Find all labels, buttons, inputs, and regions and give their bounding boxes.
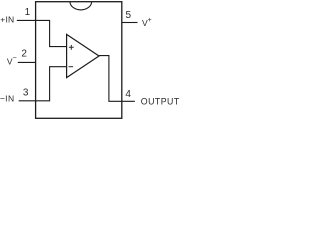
op-amp inverting input marker - bbox=[69, 66, 74, 68]
package notch (semicircle on top edge) bbox=[70, 2, 92, 10]
wire pin1 +IN to noninverting input bbox=[17, 20, 67, 46]
svg-text:4: 4 bbox=[125, 89, 131, 100]
wire pin2 V- stub bbox=[18, 61, 36, 63]
op-amp noninverting input marker + bbox=[69, 45, 74, 50]
wire pin5 V+ stub bbox=[122, 22, 138, 24]
svg-text:1: 1 bbox=[25, 7, 31, 18]
svg-text:3: 3 bbox=[23, 87, 29, 98]
wire op-amp output to pin4 OUTPUT bbox=[99, 56, 135, 102]
op-amp A1 triangle bbox=[67, 34, 99, 77]
svg-text:V+: V+ bbox=[142, 17, 152, 28]
svg-text:OUTPUT: OUTPUT bbox=[141, 96, 180, 106]
IC package U1 outline with pin-1 notch bbox=[36, 2, 122, 119]
svg-text:+IN: +IN bbox=[0, 14, 14, 24]
svg-text:5: 5 bbox=[126, 10, 132, 21]
svg-text:V−: V− bbox=[7, 55, 17, 67]
svg-text:−IN: −IN bbox=[0, 94, 14, 104]
wire pin3 -IN to inverting input bbox=[19, 67, 67, 101]
svg-text:2: 2 bbox=[21, 48, 27, 59]
